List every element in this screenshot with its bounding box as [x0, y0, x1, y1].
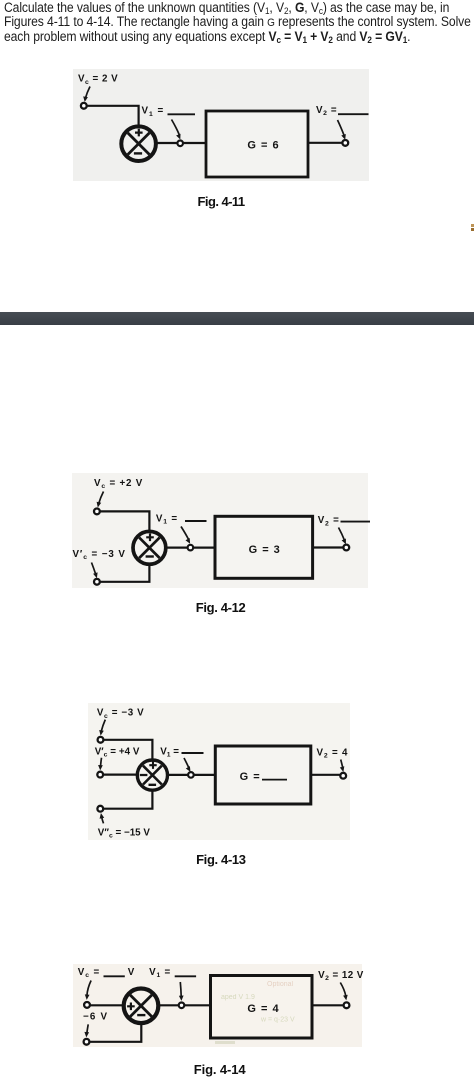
node V1	[177, 141, 183, 147]
label V1 = blank	[160, 746, 203, 758]
svg-text:V′c = +4 V: V′c = +4 V	[95, 746, 140, 758]
scan background	[72, 473, 368, 588]
caption Fig. 4-14	[194, 1062, 246, 1077]
svg-text:V2 =: V2 =	[316, 105, 337, 117]
label Vc = blank V	[78, 967, 135, 979]
arrow to terminal Vc	[83, 87, 90, 103]
svg-text:V′′c = −15 V: V′′c = −15 V	[98, 827, 151, 839]
wire block G to terminal V2	[312, 1004, 344, 1006]
terminal V''c	[97, 806, 103, 812]
svg-text:Vc = −3 V: Vc = −3 V	[97, 707, 144, 719]
label V1 = blank	[149, 967, 196, 979]
svg-text:−6 V: −6 V	[83, 1012, 108, 1023]
terminal Vc	[94, 509, 100, 515]
terminal -6V	[84, 1039, 90, 1045]
terminal V2	[342, 140, 348, 146]
svg-text:Optional: Optional	[267, 981, 294, 988]
svg-text:V: V	[128, 967, 135, 978]
figure 4-14 schematic	[0, 955, 474, 1055]
arrow to terminal V2	[340, 983, 347, 1001]
wire -6V to summing junction	[89, 1024, 141, 1042]
svg-text:V2 = 12 V: V2 = 12 V	[318, 970, 364, 982]
terminal Vc	[84, 1002, 90, 1008]
block G = 4	[211, 976, 313, 1039]
terminal V'c	[94, 579, 100, 585]
block G = 3	[215, 516, 313, 578]
svg-text:Vc =: Vc =	[78, 967, 100, 979]
block G = 6	[206, 111, 308, 177]
wire block G to terminal V2	[308, 142, 342, 144]
svg-text:G =: G =	[240, 771, 261, 783]
label V2 = blank	[316, 105, 369, 117]
figure 4-13 schematic	[0, 695, 474, 850]
orange edge mark	[471, 224, 474, 232]
svg-text:V1 =: V1 =	[149, 967, 171, 979]
wire Vc to summing junction	[100, 511, 150, 533]
svg-text:V1 =: V1 =	[142, 106, 165, 118]
arrow to terminal V'c	[98, 758, 103, 771]
terminal V2	[343, 545, 349, 551]
wire S4 to block G	[159, 1004, 211, 1006]
terminal V2	[344, 1002, 350, 1008]
wire V'c to summing junction	[103, 773, 139, 775]
node V1	[188, 545, 194, 551]
wire V''c to summing junction	[103, 790, 152, 809]
arrow to terminal Vc	[97, 492, 104, 508]
caption Fig. 4-11	[198, 194, 245, 209]
wire Vc to summing junction	[87, 106, 139, 128]
wire block G to terminal V2	[313, 546, 344, 548]
caption Fig. 4-13	[196, 852, 246, 867]
arrow to terminal V2	[339, 528, 346, 545]
arrow to node V1	[172, 120, 181, 140]
summing junction S3	[137, 760, 167, 790]
arrow to terminal Vc	[85, 981, 91, 1000]
arrow to terminal Vc	[99, 720, 105, 736]
wire V'c to summing junction	[100, 563, 150, 582]
divider bar	[0, 312, 474, 325]
svg-text:G = 4: G = 4	[247, 1003, 279, 1015]
arrow to node V1	[181, 527, 190, 544]
svg-text:V1 =: V1 =	[156, 513, 178, 525]
figure 4-11 schematic	[0, 60, 474, 220]
scan background	[73, 964, 362, 1047]
faint bleed-through artifact 4	[215, 1041, 235, 1044]
label V1 = blank	[156, 513, 207, 525]
wire Vc to summing junction	[90, 1004, 123, 1006]
caption Fig. 4-12	[196, 600, 246, 615]
scan background	[73, 69, 369, 181]
summing junction S2	[133, 531, 166, 564]
summing junction S1	[121, 126, 156, 161]
terminal Vc	[81, 103, 87, 109]
summing junction S4	[124, 989, 159, 1024]
arrow to terminal V2	[338, 120, 346, 140]
svg-text:w = q·23 V: w = q·23 V	[260, 1017, 295, 1024]
wire S1 to block G	[157, 142, 208, 144]
svg-text:Vc = 2 V: Vc = 2 V	[78, 74, 118, 86]
svg-text:V′c = −3 V: V′c = −3 V	[73, 549, 126, 561]
terminal V'c	[97, 772, 103, 778]
wire block G to terminal V2	[311, 774, 341, 776]
arrow to terminal V2	[340, 760, 345, 773]
figure 4-12 schematic	[0, 460, 474, 620]
svg-text:V1 =: V1 =	[160, 746, 179, 758]
node V1	[188, 772, 194, 778]
node V1	[179, 1003, 185, 1009]
wire S2 to block G	[166, 546, 216, 548]
problem statement paragraph	[4, 1, 471, 44]
svg-text:V2 =: V2 =	[318, 515, 340, 527]
terminal Vc	[98, 737, 104, 743]
label V1 = blank	[142, 106, 196, 118]
arrow to node V1	[179, 982, 184, 1001]
wire S3 to block G	[167, 774, 216, 776]
arrow to terminal V''c (points up)	[100, 813, 105, 823]
scan background	[88, 703, 350, 840]
wire Vc to summing junction	[103, 740, 152, 761]
block G = blank	[215, 746, 310, 804]
svg-text:aped V 1.9: aped V 1.9	[221, 994, 255, 1001]
svg-text:G = 3: G = 3	[249, 544, 281, 556]
terminal V2	[340, 773, 346, 779]
arrow to terminal V'c	[92, 563, 98, 579]
svg-text:G = 6: G = 6	[247, 140, 279, 152]
svg-text:V2 = 4: V2 = 4	[317, 747, 349, 759]
label V2 = blank	[318, 515, 370, 527]
arrow to terminal -6V	[84, 1024, 89, 1037]
arrow to node V1	[184, 758, 191, 772]
